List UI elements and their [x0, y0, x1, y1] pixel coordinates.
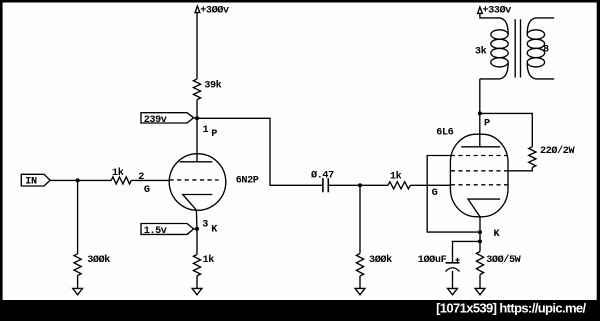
svg-text:G: G [432, 188, 438, 199]
pin 3 label [202, 219, 208, 230]
ground bypass cap [448, 288, 458, 294]
svg-text:3: 3 [202, 219, 208, 230]
svg-text:[1071x539] https://upic.me/: [1071x539] https://upic.me/ [436, 300, 586, 315]
svg-text:P: P [211, 129, 217, 140]
wire bypass node to C 100uF [453, 241, 481, 262]
pin G label U1 [144, 185, 150, 196]
ground cathode U2 [475, 288, 485, 294]
node plate of U1 [195, 116, 199, 120]
wire U1 cathode to K node [195, 210, 198, 254]
svg-text:22Ø/2W: 22Ø/2W [540, 145, 575, 157]
node cathode bypass junction [478, 239, 482, 243]
resistor 300/5W cathode [476, 252, 521, 275]
svg-text:+3ØØv: +3ØØv [200, 5, 229, 17]
ground cathode U1 [192, 288, 202, 294]
power +300v [195, 5, 229, 17]
resistor 1k cathode [193, 254, 214, 276]
resistor 300k input [74, 254, 110, 276]
svg-text:+33Øv: +33Øv [482, 5, 511, 17]
svg-text:3k: 3k [475, 45, 487, 57]
input connector IN [21, 174, 50, 187]
U2 screen grid g2 [451, 170, 508, 172]
pin K label U2 [494, 229, 501, 240]
node plate P of U2 [478, 111, 482, 115]
svg-text:1k: 1k [203, 254, 215, 266]
transformer T1 secondary winding 8 ohm [527, 30, 549, 67]
svg-text:IN: IN [25, 176, 37, 187]
pin 2 label [138, 172, 144, 183]
transformer T1 core [515, 19, 520, 77]
power +330v [478, 5, 512, 17]
svg-text:1.5v: 1.5v [144, 226, 167, 237]
svg-text:1k: 1k [390, 171, 402, 183]
resistor 39k plate load [193, 79, 221, 100]
wire cap to coupling node [328, 184, 360, 186]
wire coupling node to R 1k g2 stopper [360, 184, 388, 186]
wire R 1k cathode to ground [196, 276, 198, 289]
ground input [73, 288, 83, 294]
voltage label 1.5v [141, 224, 194, 238]
wire plate node to plate of U1 [196, 118, 198, 162]
wire U2 cathode down [479, 217, 481, 252]
wire g3 to cathode [427, 156, 480, 233]
wire plate node to coupling cap [197, 118, 323, 185]
svg-text:1ØØuF: 1ØØuF [418, 254, 447, 266]
svg-text:K: K [211, 224, 218, 235]
wire R 300k grid leak to ground [359, 276, 361, 288]
resistor 1k grid stopper U2 [388, 171, 410, 189]
svg-text:3ØØ/5W: 3ØØ/5W [486, 254, 521, 266]
svg-text:2: 2 [138, 172, 144, 183]
ground grid leak [355, 288, 365, 294]
svg-text:6N2P: 6N2P [236, 176, 259, 187]
pin G label U2 [432, 188, 438, 199]
U2 plate electrode [461, 146, 500, 148]
transformer T1 primary winding 3k [475, 30, 508, 67]
resistor 1k grid stopper [111, 167, 131, 184]
pin P label U2 [484, 119, 490, 130]
svg-text:1: 1 [203, 125, 209, 136]
wire input node down to R 300k [77, 180, 79, 253]
svg-text:8: 8 [543, 45, 549, 56]
wire +330v to T1 primary [480, 13, 508, 34]
wire 239v flag to plate node [194, 117, 197, 119]
svg-text:P: P [484, 119, 490, 130]
capacitor 100uF cathode bypass [418, 254, 460, 272]
svg-text:239v: 239v [144, 115, 167, 126]
node cathode of U1 [195, 227, 199, 231]
wire secondary top terminal [527, 18, 554, 34]
wire R 39k to plate node [196, 100, 198, 119]
U2 cathode electrode [468, 199, 500, 217]
U1 cathode electrode [183, 195, 213, 211]
resistor 220/2W screen feed [529, 145, 576, 168]
svg-text:3ØØk: 3ØØk [87, 254, 110, 266]
wire P node to plate of U2 [479, 79, 481, 147]
wire R 220 to screen grid g2 [508, 168, 533, 171]
svg-text:G: G [144, 185, 150, 196]
node cathode K of U2 [478, 230, 482, 234]
wire 1.5v flag to K node [194, 228, 197, 230]
pentode U2 6L6 envelope [436, 128, 508, 217]
wire R 300 to ground [479, 275, 481, 289]
node coupling junction [358, 183, 362, 187]
wire R 1k to grid of U2 [410, 184, 451, 186]
svg-text:3ØØk: 3ØØk [369, 254, 392, 266]
node input junction [76, 178, 80, 182]
voltage label 239v [141, 113, 194, 127]
svg-text:39k: 39k [204, 80, 221, 92]
svg-text:6L6: 6L6 [436, 128, 453, 139]
U1 grid electrode [170, 179, 219, 181]
U2 suppressor grid g3 [451, 155, 508, 157]
wire coupling node down to R 300k grid leak [359, 185, 361, 253]
svg-text:K: K [494, 229, 501, 240]
U2 control grid g1 [451, 184, 508, 186]
wire IN to input node [50, 179, 77, 181]
wire T1 primary to P node [480, 63, 508, 79]
polarity plus mark [455, 258, 459, 262]
wire R 300k to ground [77, 276, 79, 289]
resistor 300k grid leak [356, 254, 392, 277]
watermark bar [0, 300, 600, 321]
wire secondary bottom terminal [527, 63, 554, 79]
svg-text:1k: 1k [112, 167, 124, 179]
pin 1 label [203, 125, 209, 136]
pin K label U1 [211, 224, 218, 235]
wire P node to R 220 [480, 113, 533, 146]
wire C 100uF to ground [452, 271, 454, 288]
wire +300v to R 39k [196, 13, 198, 79]
pin P label U1 [211, 129, 217, 140]
triode U1 6N2P envelope [169, 154, 259, 211]
U1 plate electrode [180, 161, 213, 163]
capacitor 0.47 coupling [311, 170, 334, 193]
wire input node to R 1k grid stopper [78, 179, 112, 181]
svg-text:Ø.47: Ø.47 [311, 170, 334, 182]
wire R 1k to grid of U1 [131, 179, 169, 181]
